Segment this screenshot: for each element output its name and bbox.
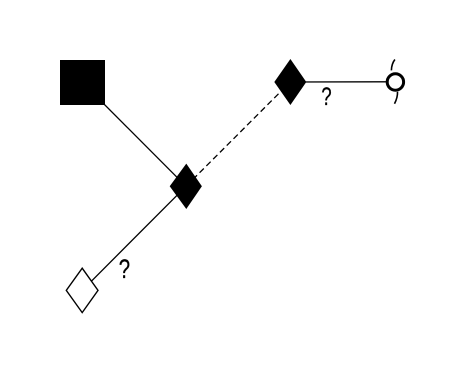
bond: upper-right diamond to circle — [290, 81, 395, 83]
bond (dashed): center diamond to upper-right diamond — [186, 82, 290, 186]
filled diamond residue, center (Neu5Ac) — [170, 164, 202, 209]
svg-text:?: ? — [321, 82, 331, 110]
reducing-end circle — [387, 74, 403, 90]
bond: square to center diamond — [83, 83, 187, 187]
parenthesis mark above circle — [391, 60, 395, 71]
label ? on bond to open diamond — [119, 255, 130, 284]
parenthesis mark below circle — [395, 92, 398, 104]
label ? on bond to circle — [321, 82, 331, 110]
open diamond residue (unknown sugar) — [66, 268, 98, 312]
filled diamond residue, upper right (Neu5Ac) — [274, 59, 306, 105]
filled square residue (GalNAc) — [60, 60, 105, 105]
svg-text:?: ? — [119, 255, 130, 284]
bond: center diamond to open diamond — [82, 186, 186, 290]
